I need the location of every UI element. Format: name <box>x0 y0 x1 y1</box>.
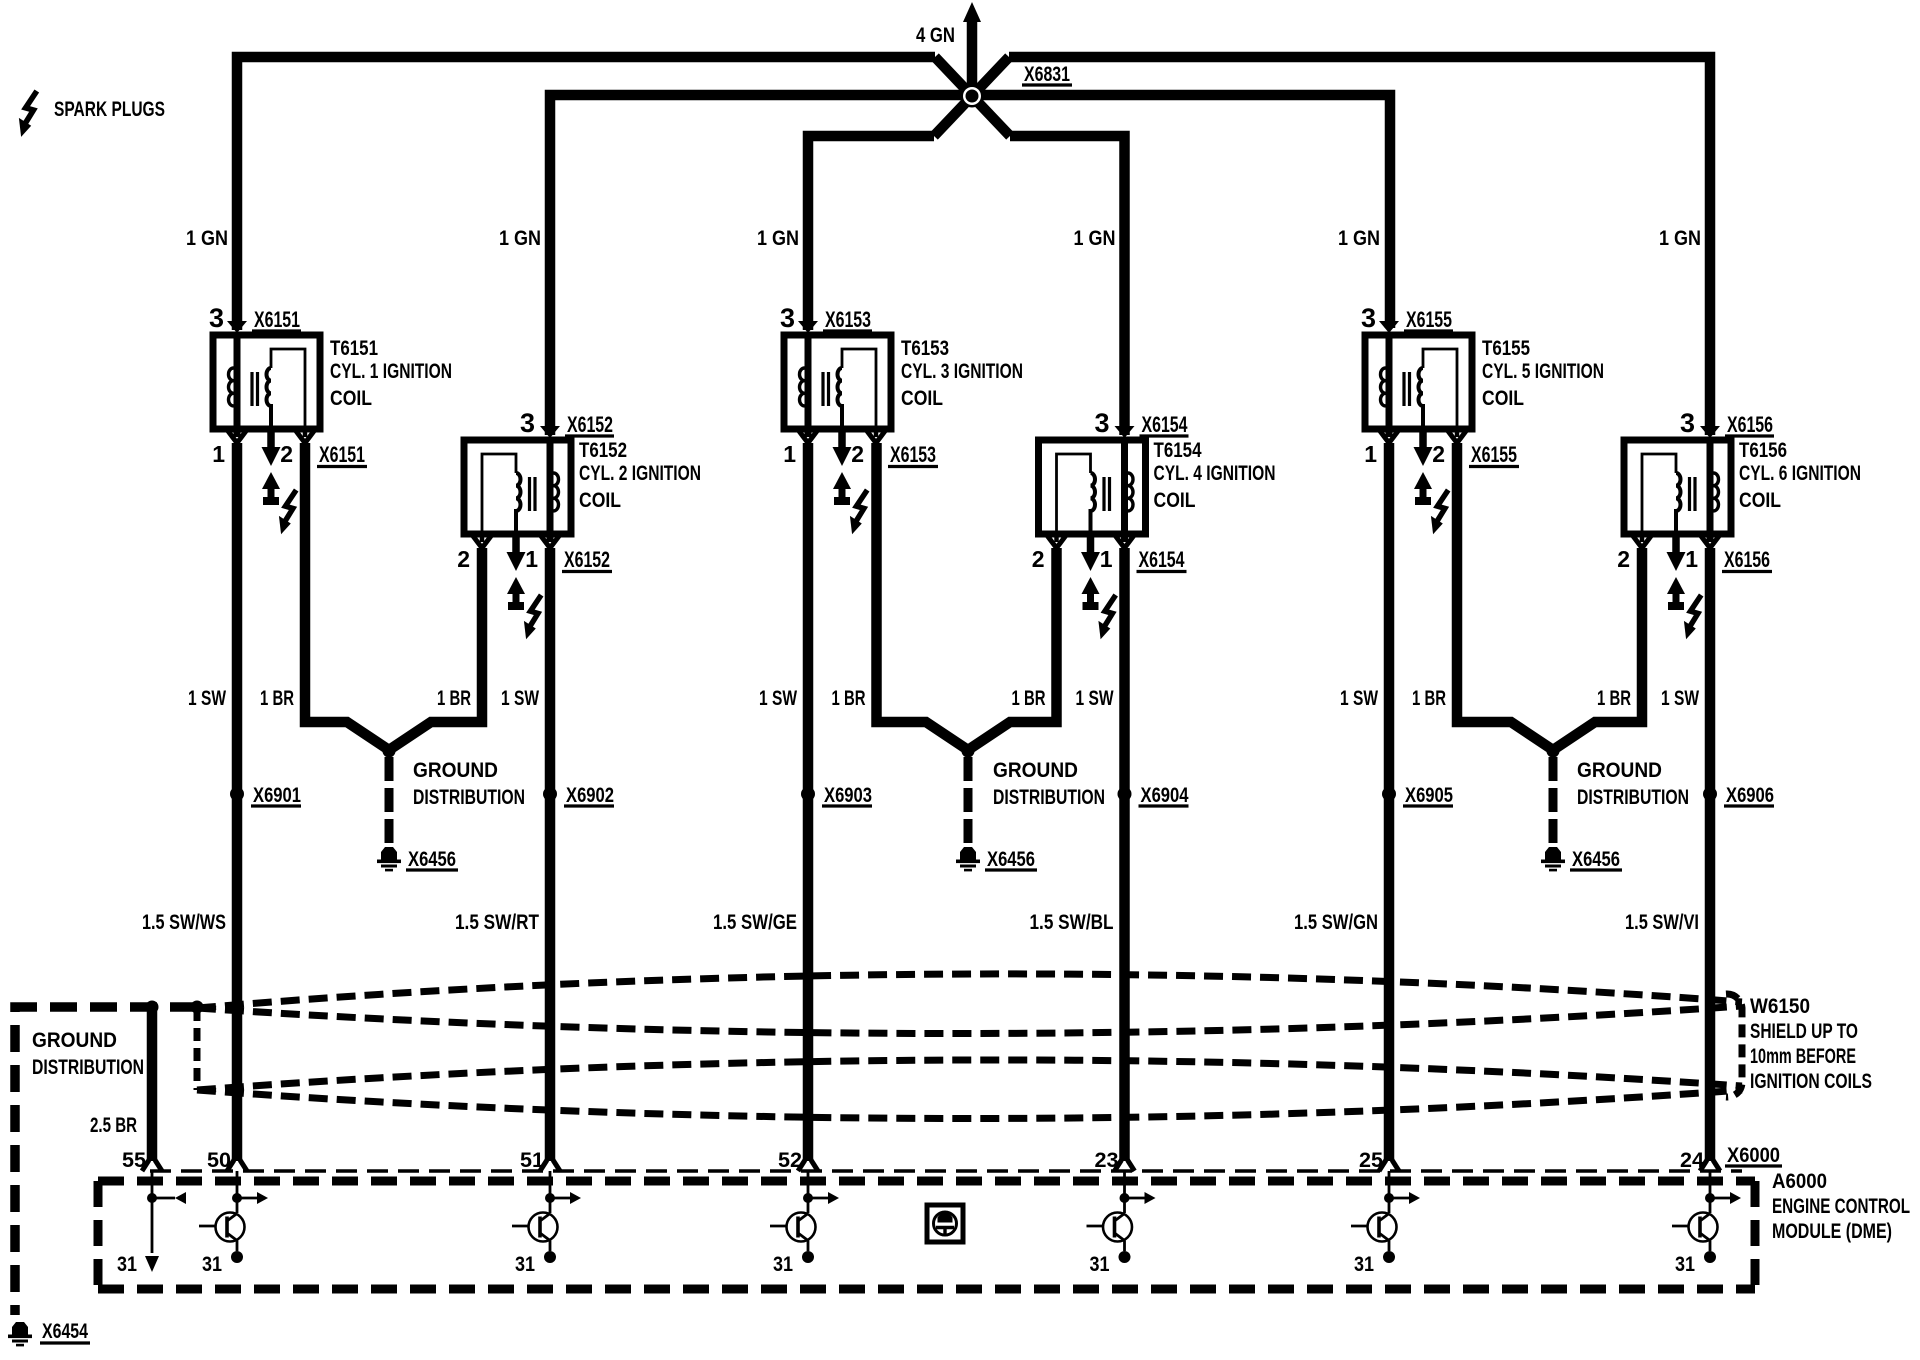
coil T6153 secondary winding and loop <box>838 368 843 429</box>
svg-text:X6155: X6155 <box>1471 442 1517 467</box>
svg-text:1.5 SW/RT: 1.5 SW/RT <box>455 911 539 934</box>
wire 1 BR from odd coil pin 2 (coils 3-4) <box>877 443 969 750</box>
coil T6153 core <box>823 372 829 406</box>
spark output arrow of coil T6155 <box>1419 429 1427 448</box>
svg-text:MODULE (DME): MODULE (DME) <box>1772 1220 1892 1243</box>
DME driver transistor for coil 6 (pin column 6) <box>1709 1171 1712 1213</box>
svg-text:DISTRIBUTION: DISTRIBUTION <box>993 786 1105 809</box>
node X6831 <box>961 85 984 108</box>
engine control module A6000 dashed box <box>98 1177 1755 1186</box>
svg-text:1 SW: 1 SW <box>501 687 539 710</box>
svg-text:DISTRIBUTION: DISTRIBUTION <box>1577 786 1689 809</box>
svg-text:GROUND: GROUND <box>32 1029 117 1052</box>
svg-text:T6151: T6151 <box>330 337 378 360</box>
svg-text:T6154: T6154 <box>1154 439 1202 462</box>
wire lower bus right (to coil 4) <box>1010 136 1125 435</box>
ground X6456 (coils 1-2) <box>377 847 401 871</box>
svg-text:1 BR: 1 BR <box>1012 687 1046 710</box>
svg-text:X6153: X6153 <box>825 307 871 332</box>
terminal 31 node for coil 4 driver <box>1119 1251 1131 1263</box>
connector X6153 bottom sockets pins 1 and 2 <box>874 429 879 437</box>
node X6901 <box>230 787 244 801</box>
svg-text:X6151: X6151 <box>254 307 300 332</box>
svg-text:CYL. 2 IGNITION: CYL. 2 IGNITION <box>579 462 701 485</box>
ground X6454 <box>8 1322 32 1346</box>
svg-text:1: 1 <box>525 546 538 572</box>
svg-text:2: 2 <box>1432 441 1445 467</box>
svg-text:SPARK PLUGS: SPARK PLUGS <box>54 98 165 121</box>
coil T6152 primary winding <box>547 440 554 542</box>
svg-text:X6902: X6902 <box>566 784 614 807</box>
svg-text:X6456: X6456 <box>1572 848 1620 871</box>
connector X6156 bottom sockets pins 1 and 2 <box>1640 534 1645 542</box>
junction X6831 diagonal arms <box>934 57 1010 136</box>
svg-text:X6831: X6831 <box>1024 63 1070 86</box>
svg-text:CYL. 4 IGNITION: CYL. 4 IGNITION <box>1154 462 1276 485</box>
shield W6150 inner top curve <box>197 1006 1742 1034</box>
svg-text:CYL. 3 IGNITION: CYL. 3 IGNITION <box>901 360 1023 383</box>
spark output arrow of coil T6154 <box>1087 534 1095 553</box>
svg-text:1 GN: 1 GN <box>1659 227 1701 250</box>
wire 1 BR from odd coil pin 2 (coils 5-6) <box>1457 443 1553 750</box>
shield W6150 right end cap <box>1726 994 1742 1097</box>
wire 4 GN vertical riser <box>967 14 978 96</box>
svg-text:T6155: T6155 <box>1482 337 1530 360</box>
svg-text:COIL: COIL <box>1739 489 1781 512</box>
svg-text:GROUND: GROUND <box>993 759 1078 782</box>
ignition coil T6153 box <box>784 335 891 429</box>
coil T6156 secondary winding and loop <box>1676 473 1681 534</box>
terminal 31 node for coil 2 driver <box>544 1251 556 1263</box>
svg-text:GROUND: GROUND <box>1577 759 1662 782</box>
DME pin 55 internal lead with arrow and terminal 31 <box>151 1171 154 1253</box>
coil T6152 core <box>530 477 536 511</box>
spark plug symbol for cylinder 6 <box>1667 577 1685 594</box>
connector X6154 pin 3 (top) <box>1115 426 1135 438</box>
DME driver transistor for coil 3 (pin column 3) <box>807 1171 810 1213</box>
svg-text:X6152: X6152 <box>567 412 613 437</box>
svg-text:CYL. 1 IGNITION: CYL. 1 IGNITION <box>330 360 452 383</box>
svg-text:X6456: X6456 <box>987 848 1035 871</box>
wire 1 BR from even coil pin 2 (coils 5-6) <box>1553 548 1642 750</box>
svg-text:2: 2 <box>1617 546 1630 572</box>
coil T6154 primary winding <box>1121 440 1128 542</box>
spark plug symbol for cylinder 4 <box>1082 577 1100 594</box>
svg-text:1 GN: 1 GN <box>757 227 799 250</box>
svg-text:X6904: X6904 <box>1141 784 1189 807</box>
coil T6153 primary winding <box>805 335 812 437</box>
wire 1 BR from even coil pin 2 (coils 1-2) <box>389 548 482 750</box>
svg-text:1: 1 <box>1100 546 1113 572</box>
svg-text:X6154: X6154 <box>1139 547 1186 572</box>
DME driver transistor for coil 4 (pin column 4) <box>1123 1171 1126 1213</box>
connector X6156 pin 3 (top) <box>1700 426 1720 438</box>
svg-text:X6906: X6906 <box>1726 784 1774 807</box>
svg-text:COIL: COIL <box>1482 387 1524 410</box>
svg-text:X6903: X6903 <box>824 784 872 807</box>
spark plug symbol for cylinder 5 <box>1414 472 1432 489</box>
ignition coil T6156 box <box>1624 440 1731 534</box>
connector X6151 pin 3 (top) <box>227 321 247 333</box>
svg-text:31: 31 <box>117 1253 137 1276</box>
coil T6155 core <box>1404 372 1410 406</box>
arrow up at top of 4 GN wire <box>963 2 981 22</box>
svg-text:SHIELD UP TO: SHIELD UP TO <box>1750 1020 1858 1043</box>
ignition coil T6151 box <box>213 335 320 429</box>
spark plug symbol for cylinder 2 <box>507 577 525 594</box>
svg-text:2: 2 <box>457 546 470 572</box>
spark output arrow of coil T6152 <box>512 534 520 553</box>
svg-text:1 BR: 1 BR <box>832 687 866 710</box>
svg-text:W6150: W6150 <box>1750 995 1810 1018</box>
svg-text:X6151: X6151 <box>319 442 365 467</box>
wire top bus left (to coil 1) <box>237 57 935 330</box>
svg-text:1.5 SW/WS: 1.5 SW/WS <box>142 911 226 934</box>
svg-text:3: 3 <box>209 303 224 333</box>
svg-text:1 SW: 1 SW <box>1340 687 1378 710</box>
svg-text:2: 2 <box>280 441 293 467</box>
wire 1 SW from coil 1 pin 1 to DME <box>232 443 243 1161</box>
svg-text:CYL. 5 IGNITION: CYL. 5 IGNITION <box>1482 360 1604 383</box>
svg-text:31: 31 <box>773 1253 793 1276</box>
svg-text:31: 31 <box>202 1253 222 1276</box>
connector line X6000 <box>150 1169 1742 1173</box>
junction node of BR wires (coils 5-6) <box>1547 745 1560 758</box>
svg-text:X6153: X6153 <box>890 442 936 467</box>
node on dashed line at 2.5 BR wire <box>146 1001 159 1014</box>
ignition coil T6152 box <box>464 440 571 534</box>
svg-text:COIL: COIL <box>901 387 943 410</box>
svg-text:1: 1 <box>1364 441 1377 467</box>
terminal 31 node for coil 3 driver <box>802 1251 814 1263</box>
spark plug legend symbol <box>19 91 37 137</box>
node X6905 <box>1382 787 1396 801</box>
svg-text:1 SW: 1 SW <box>1661 687 1699 710</box>
coil T6156 core <box>1690 477 1696 511</box>
shield W6150 inner bottom curve <box>197 1060 1742 1090</box>
svg-text:COIL: COIL <box>330 387 372 410</box>
svg-text:1 SW: 1 SW <box>1076 687 1114 710</box>
node X6904 <box>1118 787 1132 801</box>
coil T6155 primary winding <box>1386 335 1393 437</box>
connector X6151 bottom sockets pins 1 and 2 <box>303 429 308 437</box>
DME driver transistor for coil 1 (pin column 1) <box>236 1171 239 1213</box>
svg-text:COIL: COIL <box>579 489 621 512</box>
wire 1 SW from coil 2 pin 1 to DME <box>545 548 556 1161</box>
dashed lead to ground (coils 5-6) <box>1549 757 1558 846</box>
svg-text:1.5 SW/BL: 1.5 SW/BL <box>1030 911 1114 934</box>
coil T6151 secondary winding and loop <box>267 368 272 429</box>
dashed lead to ground (coils 3-4) <box>964 757 973 846</box>
svg-text:31: 31 <box>1090 1253 1110 1276</box>
wire 2.5 BR <box>147 1007 158 1161</box>
svg-text:1 GN: 1 GN <box>499 227 541 250</box>
coil T6151 primary winding <box>234 335 241 437</box>
coil T6155 secondary winding and loop <box>1418 368 1423 429</box>
wire lower bus left (to coil 3) <box>808 136 934 330</box>
svg-text:3: 3 <box>520 408 535 438</box>
ground X6456 (coils 3-4) <box>956 847 980 871</box>
spark output arrow of coil T6151 <box>267 429 275 448</box>
svg-text:1 GN: 1 GN <box>1074 227 1116 250</box>
junction node of BR wires (coils 1-2) <box>383 745 396 758</box>
svg-text:1 BR: 1 BR <box>260 687 294 710</box>
connector X6154 bottom sockets pins 1 and 2 <box>1054 534 1059 542</box>
spark output arrow of coil T6153 <box>838 429 846 448</box>
svg-text:X6152: X6152 <box>564 547 610 572</box>
spark output arrow of coil T6156 <box>1672 534 1680 553</box>
svg-text:1 SW: 1 SW <box>188 687 226 710</box>
svg-text:3: 3 <box>1680 408 1695 438</box>
wire top bus right (to coil 6) <box>1009 57 1710 435</box>
node X6906 <box>1703 787 1717 801</box>
svg-text:X6156: X6156 <box>1727 412 1773 437</box>
svg-text:1: 1 <box>1685 546 1698 572</box>
junction node of BR wires (coils 3-4) <box>962 745 975 758</box>
svg-text:ENGINE CONTROL: ENGINE CONTROL <box>1772 1195 1910 1218</box>
svg-text:2: 2 <box>851 441 864 467</box>
svg-text:X6454: X6454 <box>42 1320 88 1343</box>
coil T6151 core <box>252 372 258 406</box>
node at shield left tip <box>191 1001 204 1014</box>
svg-text:3: 3 <box>1094 408 1109 438</box>
svg-text:1 GN: 1 GN <box>186 227 228 250</box>
svg-text:2.5 BR: 2.5 BR <box>90 1114 137 1137</box>
wire 1 BR from even coil pin 2 (coils 3-4) <box>968 548 1057 750</box>
svg-text:X6000: X6000 <box>1727 1144 1780 1167</box>
svg-text:3: 3 <box>1361 303 1376 333</box>
shield W6150 outer bottom curve <box>197 1090 1742 1119</box>
svg-text:T6152: T6152 <box>579 439 627 462</box>
svg-text:31: 31 <box>515 1253 535 1276</box>
shield W6150 left end cap <box>194 1008 201 1090</box>
DME driver transistor for coil 5 (pin column 5) <box>1388 1171 1391 1213</box>
connector X6153 pin 3 (top) <box>798 321 818 333</box>
shield W6150 outer top curve <box>197 974 1742 1008</box>
svg-text:DISTRIBUTION: DISTRIBUTION <box>32 1056 144 1079</box>
svg-text:1.5 SW/GN: 1.5 SW/GN <box>1294 911 1378 934</box>
svg-text:X6154: X6154 <box>1142 412 1189 437</box>
svg-text:X6456: X6456 <box>408 848 456 871</box>
svg-text:1: 1 <box>783 441 796 467</box>
connector X6152 bottom sockets pins 1 and 2 <box>480 534 485 542</box>
connector X6155 pin 3 (top) <box>1379 321 1399 333</box>
node X6903 <box>801 787 815 801</box>
coil T6152 secondary winding and loop <box>516 473 521 534</box>
coil T6154 core <box>1104 477 1110 511</box>
shield/screen symbol inside DME <box>927 1205 963 1242</box>
svg-text:1.5 SW/VI: 1.5 SW/VI <box>1625 911 1699 934</box>
svg-text:1: 1 <box>212 441 225 467</box>
spark plug symbol for cylinder 1 <box>262 472 280 489</box>
svg-text:3: 3 <box>780 303 795 333</box>
wire 1 SW from coil 4 pin 1 to DME <box>1119 548 1130 1161</box>
svg-text:X6901: X6901 <box>253 784 301 807</box>
spark plug symbol for cylinder 3 <box>833 472 851 489</box>
wire middle bus (coil 2 to coil 5) <box>550 95 1390 435</box>
ignition coil T6154 box <box>1039 440 1146 534</box>
svg-text:DISTRIBUTION: DISTRIBUTION <box>413 786 525 809</box>
svg-text:GROUND: GROUND <box>413 759 498 782</box>
svg-text:A6000: A6000 <box>1772 1170 1827 1193</box>
svg-text:COIL: COIL <box>1154 489 1196 512</box>
coil T6156 primary winding <box>1707 440 1714 542</box>
svg-text:10mm BEFORE: 10mm BEFORE <box>1750 1045 1856 1068</box>
svg-text:31: 31 <box>1675 1253 1695 1276</box>
connector X6152 pin 3 (top) <box>540 426 560 438</box>
connector X6155 bottom sockets pins 1 and 2 <box>1455 429 1460 437</box>
svg-text:CYL. 6 IGNITION: CYL. 6 IGNITION <box>1739 462 1861 485</box>
svg-text:1 BR: 1 BR <box>437 687 471 710</box>
wire 1 BR from odd coil pin 2 (coils 1-2) <box>305 443 389 750</box>
coil T6154 secondary winding and loop <box>1091 473 1096 534</box>
svg-text:X6155: X6155 <box>1406 307 1452 332</box>
terminal 31 node for coil 1 driver <box>231 1251 243 1263</box>
svg-text:1 BR: 1 BR <box>1412 687 1446 710</box>
node X6902 <box>543 787 557 801</box>
wire 1 SW from coil 5 pin 1 to DME <box>1384 443 1395 1161</box>
ground X6456 (coils 5-6) <box>1541 847 1565 871</box>
terminal 31 node for coil 6 driver <box>1704 1251 1716 1263</box>
svg-text:2: 2 <box>1032 546 1045 572</box>
svg-text:T6156: T6156 <box>1739 439 1787 462</box>
svg-text:1 BR: 1 BR <box>1597 687 1631 710</box>
svg-text:1.5 SW/GE: 1.5 SW/GE <box>713 911 797 934</box>
svg-text:1 SW: 1 SW <box>759 687 797 710</box>
svg-text:T6153: T6153 <box>901 337 949 360</box>
wire 1 SW from coil 3 pin 1 to DME <box>803 443 814 1161</box>
svg-text:31: 31 <box>1354 1253 1374 1276</box>
dashed lead to ground (coils 1-2) <box>385 757 394 846</box>
wire 1 SW from coil 6 pin 1 to DME <box>1705 548 1716 1161</box>
svg-text:1 GN: 1 GN <box>1338 227 1380 250</box>
terminal 31 node for coil 5 driver <box>1383 1251 1395 1263</box>
ground distribution dashed box (top and left edges) <box>15 1007 197 1315</box>
svg-text:4 GN: 4 GN <box>916 24 955 47</box>
svg-text:X6905: X6905 <box>1405 784 1453 807</box>
DME driver transistor for coil 2 (pin column 2) <box>549 1171 552 1213</box>
svg-text:X6156: X6156 <box>1724 547 1770 572</box>
svg-text:IGNITION COILS: IGNITION COILS <box>1750 1070 1872 1093</box>
ignition coil T6155 box <box>1365 335 1472 429</box>
